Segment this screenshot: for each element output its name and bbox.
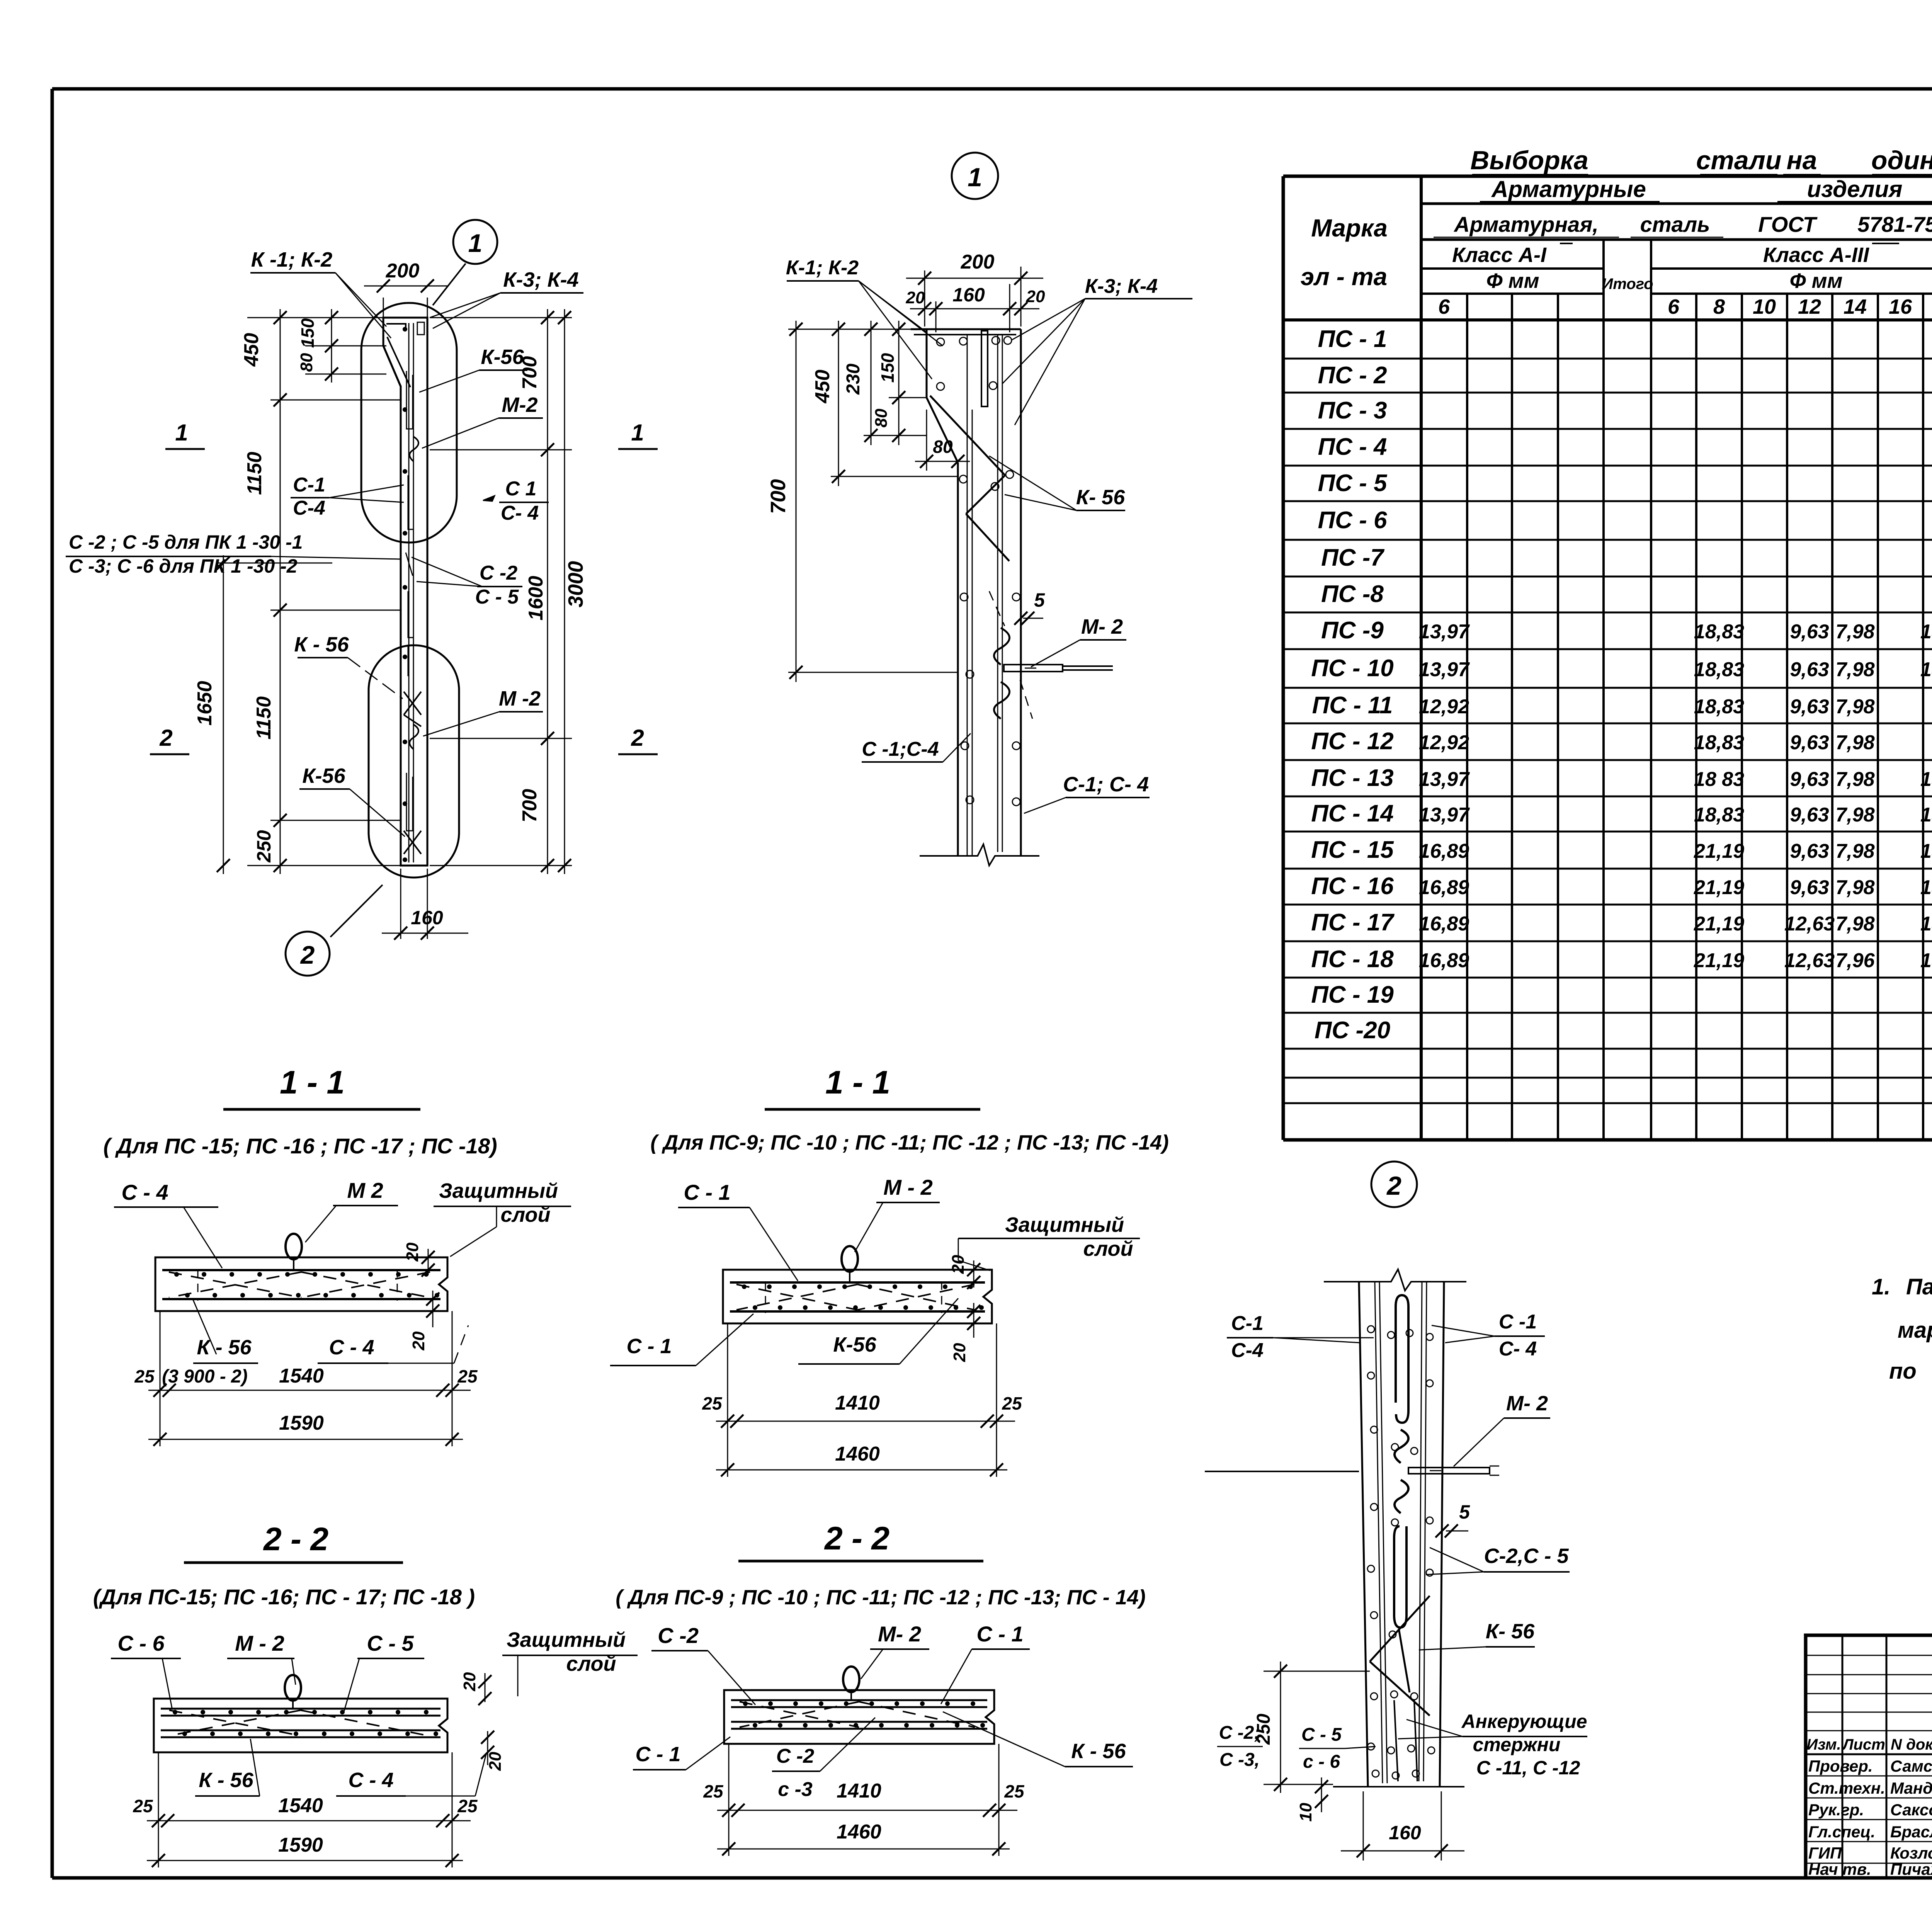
slab outline	[154, 1699, 447, 1752]
detail 1 dim 200	[906, 251, 1043, 327]
svg-text:21,19: 21,19	[1694, 913, 1744, 935]
svg-text:C- 4: C- 4	[501, 502, 539, 524]
svg-text:1460: 1460	[837, 1821, 881, 1843]
svg-text:К - 56: К - 56	[197, 1336, 252, 1359]
detail 2 label M-2	[1454, 1392, 1550, 1466]
svg-text:Защитный: Защитный	[1005, 1213, 1124, 1236]
svg-text:С-1: С-1	[1231, 1312, 1264, 1335]
svg-text:ПС - 14: ПС - 14	[1311, 800, 1393, 827]
detail 1 chamfer rebar diagonals	[930, 396, 1005, 475]
panel inner mesh lines	[408, 323, 410, 862]
svg-text:марки: марки	[1898, 1318, 1932, 1343]
svg-text:12,92: 12,92	[1419, 731, 1469, 754]
svg-text:21,19: 21,19	[1694, 949, 1744, 972]
svg-text:Защитный: Защитный	[439, 1179, 558, 1202]
svg-text:15,92: 15,92	[1920, 768, 1932, 791]
svg-text:25: 25	[703, 1781, 724, 1801]
detail circle 2 (elevation)	[286, 932, 330, 976]
label C-5 (section 2-2 left)	[344, 1631, 424, 1712]
label K-56 (elevation top)	[419, 345, 527, 392]
detail 2 big hook bottom (C-2)	[1394, 1526, 1406, 1628]
detail 2 label anchoring rods	[1398, 1711, 1587, 1779]
slab bottom mesh bar	[730, 1310, 985, 1313]
svg-text:9,63: 9,63	[1790, 840, 1829, 862]
svg-text:ПС -8: ПС -8	[1321, 581, 1384, 607]
slab outline	[724, 1690, 994, 1744]
svg-text:1410: 1410	[835, 1392, 880, 1414]
svg-text:К-56: К-56	[302, 764, 345, 787]
dim 20 upper right (section 1-1 right)	[949, 1255, 980, 1289]
svg-text:М -2: М -2	[499, 687, 541, 710]
label C-2 / C-5 (elevation mid right)	[412, 557, 522, 608]
svg-text:18,83: 18,83	[1694, 658, 1744, 681]
detail 2 inner mesh lines	[1375, 1282, 1383, 1783]
svg-text:700: 700	[519, 356, 541, 390]
svg-text:9,63: 9,63	[1790, 876, 1829, 899]
svg-text:14: 14	[1844, 295, 1867, 318]
svg-text:1: 1	[175, 420, 188, 446]
slab bottom mesh bar	[162, 1298, 440, 1300]
section 2-2 right drawing	[724, 1667, 994, 1744]
label M-2 (section 2-2 right)	[861, 1622, 929, 1679]
svg-text:К -1; К-2: К -1; К-2	[251, 248, 332, 271]
dim 20 lower (section 2-2 left)	[481, 1731, 505, 1771]
detail 1 left dim 700	[767, 321, 958, 682]
lifting loop	[843, 1667, 859, 1692]
svg-text:16,89: 16,89	[1419, 876, 1469, 899]
section mark 1-1 on elevation	[165, 420, 658, 449]
svg-text:20: 20	[1026, 287, 1045, 306]
section mark 2-2 on elevation	[150, 725, 658, 754]
svg-text:10: 10	[1753, 295, 1776, 318]
svg-text:12,63: 12,63	[1784, 913, 1835, 935]
detail 2 label K-56	[1419, 1620, 1535, 1650]
dim 20 lower right (section 1-1 left)	[409, 1291, 439, 1350]
svg-text:C-4: C-4	[293, 497, 325, 519]
dim 200 top of elevation	[364, 260, 448, 318]
svg-text:7,98: 7,98	[1835, 913, 1874, 935]
svg-text:изделия: изделия	[1807, 176, 1903, 202]
svg-text:С -2: С -2	[776, 1745, 814, 1767]
detail 2 labels C-2 C-3 / C-5 C-6	[1217, 1723, 1376, 1772]
svg-text:200: 200	[961, 251, 995, 273]
label C-1 (section 2-2 right)	[941, 1622, 1030, 1704]
label C-2 / C-3 below (section 2-2 right)	[772, 1718, 875, 1801]
svg-text:21,19: 21,19	[1694, 840, 1744, 862]
label M 2 (section 1-1 left)	[305, 1178, 398, 1242]
svg-text:80: 80	[872, 408, 891, 427]
svg-text:150: 150	[878, 353, 898, 383]
svg-text:С -3,: С -3,	[1219, 1750, 1260, 1770]
section 1-1 (for PS-15..18) title	[103, 1064, 497, 1158]
svg-text:ПС - 2: ПС - 2	[1318, 362, 1387, 389]
svg-text:С - 4: С - 4	[329, 1336, 374, 1359]
detail 1 label C-1 C-4 right	[1024, 773, 1150, 813]
label M-2 (section 2-2 left)	[227, 1631, 296, 1685]
svg-text:ПС - 6: ПС - 6	[1318, 507, 1387, 534]
svg-text:5: 5	[1034, 589, 1045, 611]
panel elevation figure (left)	[383, 318, 427, 866]
detail 1 top bar K-1	[914, 334, 1016, 335]
detail circle 1 (elevation)	[453, 220, 497, 264]
svg-text:Выборка: Выборка	[1470, 146, 1588, 175]
slab dashed diagonals	[169, 1710, 301, 1736]
svg-text:7,98: 7,98	[1835, 804, 1874, 826]
svg-text:К - 56: К - 56	[294, 633, 349, 656]
svg-text:25: 25	[702, 1393, 723, 1413]
slab outline	[723, 1270, 992, 1323]
elevation right dims 700/1600/700	[430, 309, 572, 874]
svg-text:Изм.: Изм.	[1806, 1736, 1841, 1753]
svg-text:7,98: 7,98	[1835, 840, 1874, 862]
svg-text:ПС - 13: ПС - 13	[1311, 765, 1393, 791]
svg-text:ПС -7: ПС -7	[1321, 544, 1384, 571]
svg-text:ПС - 1: ПС - 1	[1318, 326, 1387, 352]
detail 2 dim 250	[1253, 1662, 1370, 1793]
detail 1 label K-3 K-4	[1002, 275, 1192, 425]
slab top mesh bar	[162, 1269, 440, 1271]
svg-text:Козловская: Козловская	[1890, 1844, 1932, 1862]
svg-text:7,98: 7,98	[1835, 696, 1874, 718]
svg-text:С - 5: С - 5	[475, 586, 519, 608]
overall dim	[716, 1469, 1007, 1471]
extension lines below slab	[727, 1323, 728, 1477]
svg-text:М- 2: М- 2	[1081, 615, 1123, 638]
section 2-2 left drawing	[154, 1675, 447, 1752]
svg-text:13,97: 13,97	[1419, 804, 1470, 826]
svg-text:С -3; С -6 для ПК 1 -30 -2: С -3; С -6 для ПК 1 -30 -2	[69, 555, 298, 577]
svg-text:Рук.гр.: Рук.гр.	[1808, 1801, 1864, 1819]
slab double mesh bars	[731, 1699, 987, 1701]
detail 1 label K-1 K-2	[786, 257, 943, 379]
detail 1 label M-2	[1031, 615, 1126, 667]
svg-text:13,97: 13,97	[1419, 621, 1470, 643]
extension lines below slab	[728, 1744, 730, 1856]
svg-text:Ст.техн.: Ст.техн.	[1808, 1779, 1885, 1797]
svg-text:Панели: Панели	[1906, 1274, 1932, 1299]
svg-text:15,92: 15,92	[1920, 949, 1932, 972]
svg-text:1: 1	[968, 163, 982, 192]
svg-text:с -3: с -3	[778, 1778, 813, 1801]
detail 2 label C-1 / C-4 left	[1227, 1312, 1374, 1362]
label C 1 / C-4 (elevation right)	[483, 478, 549, 524]
detail circle 1 header	[952, 153, 998, 199]
svg-text:(Для ПС-15; ПС -16; ПС - 17;: (Для ПС-15; ПС -16; ПС - 17; ПС -18 )	[93, 1585, 475, 1609]
svg-text:16,89: 16,89	[1419, 949, 1469, 972]
svg-text:ПС -20: ПС -20	[1315, 1017, 1390, 1044]
svg-text:15,92: 15,92	[1920, 876, 1932, 899]
svg-text:15,92: 15,92	[1920, 621, 1932, 643]
detail 1 inner mesh right	[997, 335, 998, 852]
svg-text:450: 450	[811, 370, 834, 404]
svg-text:150: 150	[298, 318, 318, 348]
svg-text:9,63: 9,63	[1790, 696, 1829, 718]
svg-text:N документ: N документ	[1891, 1736, 1932, 1753]
dim 25 / mid / 25	[152, 1814, 165, 1827]
detail 1 rebar section dots	[937, 338, 944, 346]
svg-text:12: 12	[1798, 295, 1821, 318]
label C-2 (section 2-2 right)	[651, 1623, 755, 1705]
panel chamfer reinforcement diagonal	[387, 337, 410, 387]
svg-text:700: 700	[519, 789, 541, 823]
section 2-2 (for PS-9..14) title	[616, 1520, 1146, 1609]
svg-text:9,63: 9,63	[1790, 768, 1829, 791]
overall dim	[147, 1860, 463, 1861]
label Zashitny sloy (section 1-1 right)	[958, 1213, 1140, 1270]
title block signature rows	[1808, 1757, 1932, 1878]
dims below section 2-2 right	[703, 1744, 1025, 1856]
label K-56 (elevation bottom left)	[299, 764, 405, 837]
svg-text:16: 16	[1889, 295, 1912, 318]
svg-text:С - 5: С - 5	[1301, 1725, 1342, 1745]
svg-text:( Для ПС-9 ; ПС -10 ; ПС -11;: ( Для ПС-9 ; ПС -10 ; ПС -11; ПС -12 ; П…	[616, 1586, 1146, 1609]
detail 2 rebar dots	[1367, 1326, 1374, 1333]
svg-text:ПС - 17: ПС - 17	[1311, 909, 1395, 936]
detail 2 panel outline	[1359, 1282, 1368, 1787]
svg-text:М- 2: М- 2	[878, 1622, 921, 1646]
svg-text:эл - та: эл - та	[1301, 263, 1388, 291]
label C-4 (section 1-1 left)	[114, 1180, 222, 1268]
detail 2 dim 5	[1435, 1501, 1470, 1537]
detail 1 dim 5 at right face	[1014, 589, 1045, 625]
svg-text:сталь: сталь	[1640, 212, 1710, 236]
dim 20 lower right (section 1-1 right)	[950, 1303, 980, 1362]
svg-text:( Для ПС -15; ПС -16 ; ПС -: ( Для ПС -15; ПС -16 ; ПС -17 ; ПС -18)	[103, 1134, 497, 1158]
section 1-1 left drawing	[155, 1234, 447, 1311]
svg-text:К-3; К-4: К-3; К-4	[1085, 275, 1158, 298]
svg-text:3000: 3000	[564, 561, 587, 607]
label C-4 below (section 1-1 left)	[318, 1325, 468, 1363]
svg-text:6: 6	[1668, 295, 1680, 318]
svg-text:1540: 1540	[278, 1794, 323, 1817]
svg-text:1 - 1: 1 - 1	[280, 1064, 345, 1100]
svg-text:М 2: М 2	[347, 1178, 383, 1202]
panel top corner bar K-1	[386, 324, 406, 331]
svg-text:15,92: 15,92	[1920, 658, 1932, 681]
dims below section 1-1 right	[702, 1323, 1022, 1477]
panel outline	[383, 318, 427, 866]
svg-text:К-56: К-56	[481, 345, 524, 369]
svg-text:1150: 1150	[253, 696, 275, 740]
svg-text:1650: 1650	[194, 681, 216, 726]
extension lines below slab	[160, 1311, 161, 1446]
label K-56 (elevation mid left)	[294, 633, 403, 699]
svg-text:К- 56: К- 56	[1486, 1620, 1535, 1643]
svg-text:450: 450	[240, 333, 263, 367]
svg-text:1540: 1540	[279, 1365, 324, 1387]
svg-text:20: 20	[486, 1752, 505, 1771]
svg-text:C-4: C-4	[1231, 1339, 1264, 1362]
elevation overall dim 3000	[558, 309, 587, 874]
label C-1 / C-4 (elevation left)	[291, 474, 404, 519]
detail 1 dim 230	[843, 321, 927, 445]
svg-text:С - 1: С - 1	[635, 1743, 680, 1766]
svg-text:на: на	[1787, 146, 1817, 175]
svg-text:7,96: 7,96	[1835, 949, 1875, 972]
overall dim	[717, 1849, 1010, 1850]
svg-text:ПС - 3: ПС - 3	[1318, 397, 1387, 424]
svg-text:М- 2: М- 2	[1506, 1392, 1548, 1415]
svg-text:стержни: стержни	[1473, 1734, 1561, 1755]
detail 2 S hooks at M-2	[1395, 1430, 1408, 1463]
panel rebar dots	[403, 327, 407, 332]
lifting loop	[285, 1675, 301, 1701]
table header texts	[1301, 174, 1932, 318]
svg-text:13,97: 13,97	[1419, 658, 1470, 681]
svg-text:2: 2	[631, 725, 644, 751]
svg-text:с - 6: с - 6	[1303, 1752, 1340, 1772]
svg-text:ПС - 18: ПС - 18	[1311, 946, 1394, 973]
svg-text:5: 5	[1459, 1501, 1470, 1523]
svg-text:С -2;: С -2;	[1219, 1723, 1260, 1743]
elevation left dimension chain 450/1150/1150/250	[240, 309, 401, 874]
detail 2 K-56 diagonals	[1370, 1596, 1430, 1662]
label C-1 below (section 1-1 right)	[610, 1314, 753, 1366]
elevation sub dims 150 and 80	[297, 309, 386, 383]
svg-text:25: 25	[134, 1366, 155, 1386]
svg-text:1590: 1590	[278, 1834, 323, 1856]
svg-text:700: 700	[767, 479, 790, 514]
svg-text:Класс А-III: Класс А-III	[1763, 243, 1869, 267]
svg-text:С -2: С -2	[480, 562, 517, 584]
note 1: concrete grade text	[1872, 1274, 1932, 1384]
svg-text:С - 1: С - 1	[684, 1180, 730, 1204]
detail 2 label C-2 C-5	[1426, 1544, 1570, 1575]
dims below section 1-1 left	[134, 1311, 478, 1446]
svg-text:9,63: 9,63	[1790, 658, 1829, 681]
svg-text:7,98: 7,98	[1835, 768, 1874, 791]
svg-text:7,98: 7,98	[1835, 731, 1874, 754]
svg-text:К-1; К-2: К-1; К-2	[786, 257, 859, 279]
svg-text:М - 2: М - 2	[235, 1631, 284, 1655]
svg-text:160: 160	[411, 907, 443, 929]
svg-text:160: 160	[1389, 1822, 1421, 1844]
svg-text:К-3; К-4: К-3; К-4	[503, 268, 578, 291]
svg-text:5781-75: 5781-75	[1857, 212, 1932, 236]
svg-text:18,83: 18,83	[1694, 696, 1744, 718]
section 1-1 (for PS-9..14) title	[650, 1064, 1169, 1154]
detail 1 figure	[911, 153, 1113, 866]
svg-text:С - 6: С - 6	[117, 1631, 165, 1655]
svg-text:1600: 1600	[525, 576, 547, 621]
svg-text:C- 4: C- 4	[1499, 1338, 1537, 1360]
detail bubble (bottom) on elevation	[369, 645, 459, 878]
svg-text:К - 56: К - 56	[199, 1769, 253, 1792]
svg-text:С - 5: С - 5	[367, 1631, 414, 1655]
label C-6 (section 2-2 left)	[111, 1631, 181, 1708]
label Zashitny sloy (section 2-2 left)	[502, 1628, 638, 1696]
svg-text:К- 56: К- 56	[1076, 486, 1125, 509]
svg-text:Саксонова: Саксонова	[1890, 1801, 1932, 1819]
svg-text:С -11, С -12: С -11, С -12	[1476, 1757, 1580, 1779]
table body marks and values	[1311, 326, 1932, 1044]
detail 1 dim 80 horizontal at chamfer	[915, 410, 970, 471]
slab outline	[155, 1257, 447, 1311]
svg-text:С - 4: С - 4	[348, 1769, 393, 1792]
svg-text:ПС - 15: ПС - 15	[1311, 837, 1394, 863]
dim 160 bottom of elevation	[382, 869, 468, 940]
svg-text:С-1: С-1	[293, 474, 325, 496]
detail 1 dims 150 and 80 vertical	[872, 321, 927, 445]
title block header texts Izm List N dokument Podpis Data	[1806, 1736, 1932, 1753]
svg-text:25: 25	[1002, 1393, 1022, 1413]
hook reinforcement shapes inside panel	[406, 371, 413, 429]
K-56 cross ties mid panel	[404, 692, 421, 726]
svg-text:Ф мм: Ф мм	[1486, 269, 1539, 293]
svg-text:С -1;C-4: С -1;C-4	[862, 738, 939, 760]
svg-text:ПС - 5: ПС - 5	[1318, 470, 1388, 497]
svg-text:слой: слой	[566, 1652, 616, 1675]
label C-2 C-5 dlya PK1-30-1 / C-3 C-6 dlya PK1-30-2	[66, 531, 401, 577]
svg-text:80: 80	[297, 353, 316, 372]
svg-text:7,98: 7,98	[1835, 876, 1874, 899]
detail 1 dashed hidden lines	[989, 591, 1005, 626]
svg-text:16,89: 16,89	[1419, 840, 1469, 862]
svg-text:8: 8	[1713, 295, 1725, 318]
detail 2 dim 10	[1296, 1777, 1328, 1821]
svg-text:ПС - 19: ПС - 19	[1311, 981, 1394, 1008]
title block grid	[1806, 1635, 1932, 1878]
svg-text:ПС - 4: ПС - 4	[1318, 434, 1387, 460]
svg-text:9,63: 9,63	[1790, 804, 1829, 826]
label C-1 below (section 2-2 right)	[633, 1737, 730, 1770]
leader to detail circle 2	[330, 885, 383, 937]
svg-text:ГИП: ГИП	[1808, 1844, 1842, 1862]
label K-56 below (section 1-1 right)	[798, 1298, 958, 1364]
svg-text:20: 20	[409, 1331, 428, 1350]
detail 1 panel outline	[911, 328, 1021, 330]
svg-text:Анкерующие: Анкерующие	[1461, 1711, 1587, 1732]
svg-text:Гл.спец.: Гл.спец.	[1808, 1823, 1875, 1841]
detail 2 label C-1 / C-4 right	[1432, 1311, 1545, 1360]
extension lines below slab	[158, 1752, 159, 1867]
svg-text:по: по	[1889, 1359, 1917, 1384]
svg-text:С -2: С -2	[658, 1623, 699, 1648]
svg-text:18,83: 18,83	[1694, 804, 1744, 826]
dim 20 upper right (section 1-1 left)	[403, 1242, 435, 1277]
svg-text:1: 1	[631, 420, 644, 446]
svg-text:6: 6	[1438, 295, 1450, 318]
label K-56 below (section 2-2 right)	[943, 1712, 1133, 1767]
svg-text:ПС - 10: ПС - 10	[1311, 655, 1393, 682]
svg-text:1: 1	[468, 229, 483, 257]
detail 1 label C-1 C-4 left	[862, 733, 971, 762]
svg-text:Самсонова: Самсонова	[1890, 1757, 1932, 1775]
svg-text:1410: 1410	[837, 1780, 881, 1802]
svg-text:С-2,С - 5: С-2,С - 5	[1484, 1544, 1569, 1568]
svg-text:ПС - 12: ПС - 12	[1311, 728, 1393, 755]
svg-text:12,63: 12,63	[1784, 949, 1835, 972]
label K-56 with 3900-2 (section 1-1 left)	[162, 1298, 258, 1387]
svg-text:Арматурные: Арматурные	[1491, 176, 1646, 202]
svg-text:Лист: Лист	[1842, 1736, 1885, 1753]
svg-text:М-2: М-2	[502, 393, 538, 417]
detail 2 M-2 plate	[1408, 1468, 1490, 1474]
detail 1 inner mesh left	[967, 335, 968, 856]
svg-text:7,98: 7,98	[1835, 658, 1874, 681]
svg-text:ПС - 16: ПС - 16	[1311, 873, 1394, 900]
svg-text:Ф мм: Ф мм	[1789, 269, 1842, 293]
table grid	[1283, 176, 1932, 1140]
svg-text:Пичахчи: Пичахчи	[1890, 1860, 1932, 1878]
dims below section 2-2 left	[133, 1752, 478, 1867]
table title: Выборка стали на один элемент, кг	[1470, 146, 1932, 179]
svg-text:С - 4: С - 4	[121, 1180, 168, 1204]
slab dashed diagonals	[736, 1284, 857, 1310]
dim 25 / mid / 25	[153, 1384, 167, 1397]
svg-text:С - 1: С - 1	[626, 1335, 672, 1358]
label C-4 below (section 2-2 left)	[336, 1754, 486, 1796]
